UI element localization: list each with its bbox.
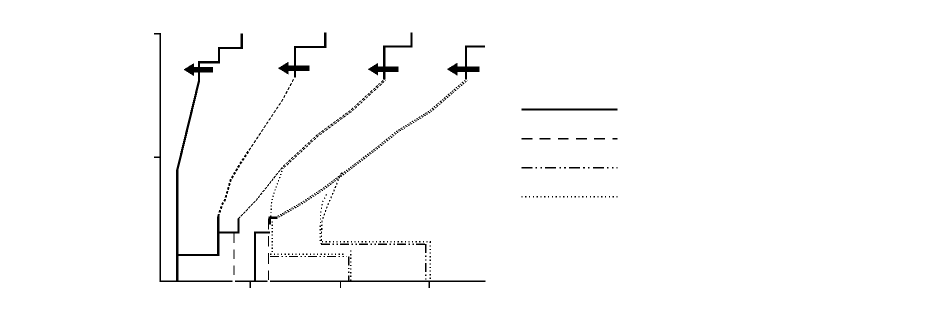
tail B dotted dropline	[429, 242, 431, 281]
tail B dotted branch riser and horizontal	[320, 194, 431, 241]
solid landing corner for curve 4	[270, 218, 278, 225]
x-axis white gap at dashed dropline 2	[267, 280, 269, 282]
dashed dropline 1	[233, 234, 235, 279]
staircase 4	[466, 47, 485, 80]
y-axis middle tick	[154, 156, 161, 158]
x-axis tick 1	[249, 281, 251, 288]
legend dotted line	[521, 196, 617, 198]
x-axis tick 2	[340, 281, 342, 288]
staircase 2	[295, 33, 325, 78]
legend dashed line	[521, 138, 617, 140]
curve 4 dotted slant	[278, 80, 468, 218]
curve 3 dash-dot-dot slant upper railroad part	[283, 79, 385, 167]
x-axis white gap at dashed dropline 1	[233, 280, 235, 282]
x-axis	[160, 280, 486, 282]
arrow 3	[368, 63, 399, 76]
curve 2 dashed slant upper thin part	[249, 79, 294, 151]
solid step L1	[177, 217, 218, 255]
tail A dotted horizontal	[270, 253, 343, 255]
y-axis	[159, 33, 161, 281]
legend solid line	[521, 108, 617, 110]
arrow 4	[447, 63, 480, 76]
legend dash-dot-dot line	[521, 167, 617, 169]
solid step G3	[255, 232, 270, 281]
tail A dash-dot-dot horizontal	[270, 255, 346, 257]
dashed dropline 2	[268, 219, 270, 281]
y-axis top tick	[154, 33, 161, 35]
dotted riser from corner 4 up to curve 3 slant	[271, 168, 284, 217]
tail B dash-dot-dot dropline	[425, 244, 427, 281]
arrow 1	[184, 63, 213, 76]
tail B dash-dot-dot horizontal	[321, 243, 426, 245]
staircase 3	[384, 33, 411, 80]
dotted vertical below corner 4	[271, 218, 273, 254]
curve 3 dash-dot-dot slant lower thin part	[238, 167, 283, 219]
x-axis tick 3	[428, 281, 430, 288]
solid step L2	[218, 219, 238, 233]
curve 1 solid: rise, slant and staircase 1	[177, 34, 241, 282]
tail B dash-dot-dot branch riser	[321, 173, 341, 245]
tail A dotted dropline	[350, 251, 352, 282]
curve 2 dashed slant lower bold part	[218, 150, 249, 216]
arrow 2	[278, 62, 309, 75]
tail A dash-dot-dot dropline	[348, 256, 350, 281]
